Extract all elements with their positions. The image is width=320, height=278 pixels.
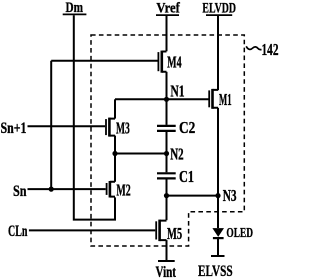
- capacitor C2: [157, 118, 195, 137]
- svg-text:C1: C1: [179, 167, 194, 186]
- wire Sn to M2 gate: [28, 188, 106, 190]
- transistor M3: [106, 118, 130, 138]
- terminal Vint: [156, 261, 177, 278]
- svg-text:N2: N2: [170, 145, 183, 164]
- junction dot M3-M2 column on N2 wire: [112, 151, 117, 156]
- junction dot Sn rail: [49, 187, 54, 192]
- wire C2 to N2: [166, 132, 168, 154]
- wire M1 drain to N3: [217, 108, 219, 196]
- wire N2 to C1: [166, 154, 168, 173]
- terminal ELVDD: [202, 1, 236, 17]
- dashed box 142: [91, 35, 244, 246]
- svg-text:142: 142: [262, 40, 279, 59]
- node N2: [164, 145, 184, 164]
- svg-text:M1: M1: [219, 90, 232, 109]
- wire N1 to C2: [166, 99, 168, 125]
- wire N2 node (M3/M2 column to N2): [115, 153, 167, 155]
- terminal ELVSS: [198, 256, 233, 278]
- wire left rail (M4 gate to Sn): [50, 61, 52, 189]
- wire N1 node (M3 drain to M1 gate): [115, 98, 209, 100]
- wire M3 drain up to N1 wire: [114, 99, 116, 118]
- svg-text:Sn: Sn: [13, 183, 27, 200]
- wire M3 source down to N2 wire: [114, 136, 116, 154]
- svg-text:M4: M4: [167, 53, 182, 72]
- wire N3 to OLED anode: [217, 196, 219, 228]
- svg-text:M3: M3: [116, 119, 130, 138]
- node N1: [164, 82, 185, 102]
- svg-text:Vint: Vint: [156, 264, 177, 278]
- wire ELVDD to M1 source: [217, 16, 219, 90]
- diode OLED: [212, 226, 253, 241]
- wire M2 drain up to N2 wire: [114, 154, 116, 182]
- wire OLED cathode to ELVSS: [217, 239, 219, 256]
- wire Sn+1 to M3 gate: [28, 125, 106, 127]
- wire Dm data line (vertical, down to M2 source jog): [74, 15, 115, 219]
- wire M5 source to Vint: [166, 240, 168, 261]
- terminal Dm: [63, 0, 87, 16]
- junction dot center column on N3 wire: [164, 193, 169, 198]
- wire CLn to M5 gate: [29, 229, 155, 231]
- svg-text:N3: N3: [223, 186, 237, 205]
- svg-text:M2: M2: [116, 181, 130, 200]
- svg-text:M5: M5: [167, 224, 182, 243]
- transistor M1: [209, 89, 231, 109]
- squiggle lead to 142: [246, 46, 261, 49]
- transistor M5: [156, 220, 182, 243]
- transistor M4: [158, 51, 181, 73]
- terminal Vref: [156, 1, 181, 17]
- svg-text:CLn: CLn: [8, 223, 28, 240]
- transistor M2: [107, 181, 131, 200]
- node N3: [215, 186, 236, 205]
- wire N3 wire down to M5 drain: [166, 196, 168, 221]
- svg-text:ELVSS: ELVSS: [198, 263, 233, 278]
- wire M4 drain to N1: [166, 72, 168, 100]
- svg-text:C2: C2: [179, 118, 195, 137]
- capacitor C1: [157, 167, 194, 186]
- wire M4 gate from left rail: [51, 60, 157, 62]
- wire N3 node (center column to N3): [167, 195, 219, 197]
- svg-text:N1: N1: [170, 82, 184, 101]
- svg-text:Sn+1: Sn+1: [1, 120, 27, 137]
- wire Vref to M4 drain: [166, 16, 168, 51]
- wire C1 to N3 wire: [166, 179, 168, 195]
- svg-text:OLED: OLED: [226, 226, 253, 241]
